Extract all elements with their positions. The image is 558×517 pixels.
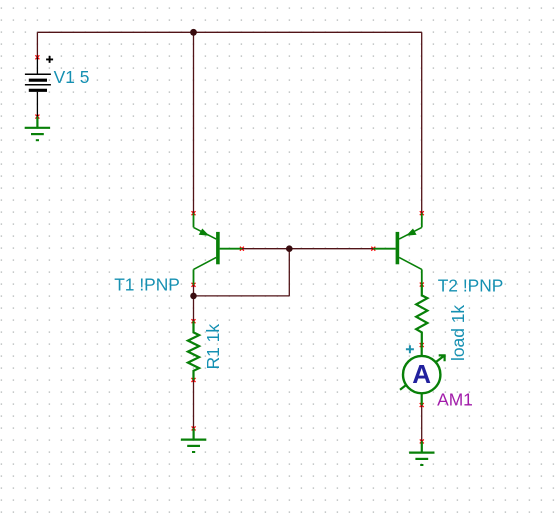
svg-text:T1 !PNP: T1 !PNP	[114, 274, 180, 294]
pin marker: T2 emitter	[420, 211, 424, 215]
ground under ammeter	[409, 441, 434, 465]
pin marker: battery V1 positive terminal	[35, 55, 39, 59]
pin marker: T1 base	[240, 247, 244, 251]
wire: R1 bottom to ground	[193, 380, 195, 428]
pin marker: R1 top	[192, 319, 196, 323]
ground under battery	[25, 117, 50, 141]
resistor load	[416, 285, 427, 346]
svg-text:AM1: AM1	[437, 390, 473, 410]
svg-text:V1 5: V1 5	[54, 67, 90, 87]
resistor R1	[188, 321, 199, 380]
wire: left rail down to T1 emitter	[193, 32, 195, 213]
pin marker: ground below R1	[192, 426, 196, 430]
junction node at T1 collector	[190, 293, 197, 300]
transistor T1	[194, 213, 242, 285]
battery V1 polarity plus sign	[46, 56, 53, 63]
junction node at base wire	[286, 245, 293, 252]
pin marker: R1 bottom	[192, 378, 196, 382]
ground under R1	[181, 428, 206, 452]
pin marker: battery V1 negative terminal	[35, 115, 39, 119]
svg-text:load 1k: load 1k	[448, 305, 468, 361]
pin marker: T2 collector / load top	[420, 283, 424, 287]
pin marker: T2 base	[371, 247, 375, 251]
svg-text:R1 1k: R1 1k	[203, 324, 223, 370]
junction node on top rail	[190, 29, 197, 36]
wire: node down to R1	[193, 296, 195, 321]
ammeter AM1 polarity plus sign	[406, 345, 414, 353]
pin marker: ground below ammeter	[420, 439, 424, 443]
battery V1	[25, 57, 51, 116]
pin marker: T1 emitter	[192, 211, 196, 215]
wire: battery top vertical segment	[36, 32, 38, 57]
pin marker: load bottom / ammeter top	[420, 343, 424, 347]
wire: feedback horizontal to collector node	[194, 295, 290, 297]
wire: ammeter bottom to ground	[421, 405, 423, 441]
wire: T1 base to center junction	[242, 248, 289, 250]
pin marker: ammeter bottom	[420, 403, 424, 407]
svg-text:T2 !PNP: T2 !PNP	[438, 275, 504, 295]
wire: T1 collector to node	[193, 285, 195, 296]
ammeter AM1	[400, 345, 445, 405]
wire: top supply rail horizontal	[37, 31, 421, 33]
wire: right rail down to T2 emitter	[421, 32, 423, 213]
wire: feedback vertical from base junction	[288, 249, 290, 296]
transistor T2	[373, 213, 422, 284]
svg-text:A: A	[412, 359, 431, 389]
wire: center junction to T2 base	[289, 248, 373, 250]
pin marker: T1 collector	[192, 283, 196, 287]
